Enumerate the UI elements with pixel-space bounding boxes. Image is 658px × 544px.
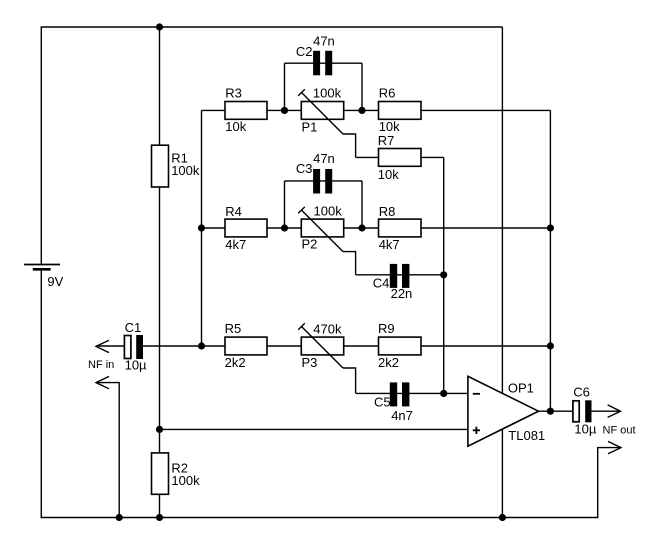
wire row R4 P2 R8 bbox=[202, 227, 551, 229]
svg-text:4k7: 4k7 bbox=[379, 237, 400, 252]
wire C2 right vertical bbox=[361, 63, 363, 110]
svg-text:47n: 47n bbox=[313, 33, 335, 48]
wire C5 row to inverting input bbox=[356, 392, 468, 394]
node op-amp output bbox=[547, 408, 554, 415]
wire left vertical from battery bottom to ground rail bbox=[40, 269, 42, 518]
capacitor C6 electrolytic bbox=[573, 384, 597, 436]
wire NF out ground stub bbox=[598, 448, 619, 518]
node R8 right rail bbox=[547, 224, 554, 231]
svg-text:2k2: 2k2 bbox=[225, 355, 246, 370]
wire right feedback rail bbox=[549, 110, 551, 411]
node C4 R7 bbox=[440, 271, 447, 278]
node C1 bus R5 bbox=[198, 342, 205, 349]
node R4 C3 P2 bbox=[281, 224, 288, 231]
capacitor C4 bbox=[373, 264, 413, 301]
node bus R4 bbox=[198, 224, 205, 231]
node C5 inverting input bbox=[440, 390, 447, 397]
capacitor C1 electrolytic bbox=[124, 320, 147, 372]
wire R7 row bbox=[356, 156, 444, 158]
resistor R6 bbox=[379, 85, 422, 134]
wire bottom ground rail bbox=[41, 517, 599, 519]
svg-text:10k: 10k bbox=[379, 119, 400, 134]
NF in ground arrow bbox=[96, 376, 109, 388]
svg-text:C2: C2 bbox=[296, 44, 313, 59]
svg-text:10k: 10k bbox=[378, 167, 399, 182]
node divider mid bbox=[156, 426, 163, 433]
svg-text:R5: R5 bbox=[225, 321, 242, 336]
svg-text:100k: 100k bbox=[313, 85, 342, 100]
wire P3 wiper jog bbox=[343, 368, 356, 393]
svg-text:R8: R8 bbox=[379, 204, 396, 219]
NF out ground arrow bbox=[608, 441, 621, 453]
wire C3 row bbox=[285, 180, 363, 182]
wire NF in to C1 bbox=[96, 345, 124, 347]
battery 9V bbox=[24, 265, 64, 289]
wire left input bus vertical bbox=[201, 110, 203, 346]
capacitor C5 bbox=[374, 382, 413, 422]
svg-text:C5: C5 bbox=[374, 395, 391, 410]
svg-text:OP1: OP1 bbox=[508, 381, 534, 396]
resistor R5 bbox=[225, 321, 267, 370]
node top rail / R1 bbox=[156, 23, 163, 30]
resistor R8 bbox=[379, 204, 422, 252]
node R9 right rail bbox=[547, 342, 554, 349]
node NF in ground rail bbox=[116, 514, 123, 521]
svg-text:R6: R6 bbox=[379, 85, 396, 100]
svg-text:100k: 100k bbox=[314, 203, 343, 218]
node R3 C2 P1 bbox=[281, 107, 288, 114]
wire C2 left vertical bbox=[284, 63, 286, 110]
wire R7 output vertical bbox=[443, 157, 445, 393]
svg-text:P3: P3 bbox=[302, 355, 318, 370]
svg-text:R4: R4 bbox=[225, 204, 242, 219]
wire non-inverting input from divider bbox=[160, 428, 468, 430]
svg-text:10µ: 10µ bbox=[125, 358, 147, 373]
svg-text:NF in: NF in bbox=[88, 359, 114, 371]
svg-text:10k: 10k bbox=[225, 119, 246, 134]
svg-text:47n: 47n bbox=[313, 151, 335, 166]
node R2 ground rail bbox=[156, 514, 163, 521]
svg-text:C3: C3 bbox=[296, 161, 313, 176]
wire op-amp supply vertical bbox=[501, 27, 503, 518]
svg-text:R7: R7 bbox=[378, 133, 395, 148]
svg-text:P1: P1 bbox=[302, 119, 318, 134]
node op-amp V- ground rail bbox=[499, 514, 506, 521]
wire left vertical from top rail to battery top bbox=[40, 27, 42, 265]
svg-text:C4: C4 bbox=[373, 276, 390, 291]
svg-text:C6: C6 bbox=[573, 384, 590, 399]
wire C6 to NF out bbox=[592, 410, 620, 412]
resistor R4 bbox=[225, 204, 267, 252]
potentiometer P2 bbox=[298, 203, 343, 251]
svg-text:470k: 470k bbox=[313, 321, 342, 336]
potentiometer P1 bbox=[298, 85, 343, 134]
svg-text:R9: R9 bbox=[378, 321, 395, 336]
svg-text:10µ: 10µ bbox=[574, 421, 596, 436]
svg-text:C1: C1 bbox=[125, 320, 142, 335]
NF in signal arrow bbox=[88, 340, 114, 371]
svg-text:4k7: 4k7 bbox=[225, 237, 246, 252]
wire top supply rail bbox=[41, 26, 503, 28]
wire vertical through R1 R2 divider bbox=[159, 27, 161, 518]
resistor R2 bbox=[152, 453, 201, 494]
resistor R3 bbox=[225, 85, 267, 134]
wire row R3 P1 R6 bbox=[202, 109, 551, 111]
op-amp U1 OP1 TL081 bbox=[468, 376, 545, 446]
capacitor C3 bbox=[296, 151, 335, 193]
wire NF in ground stub bbox=[96, 383, 119, 518]
wire C2 top row bbox=[285, 62, 363, 64]
svg-text:4n7: 4n7 bbox=[391, 408, 413, 423]
svg-text:100k: 100k bbox=[171, 473, 200, 488]
svg-text:R3: R3 bbox=[225, 85, 242, 100]
wire op-amp output to C6 bbox=[539, 410, 573, 412]
svg-text:9V: 9V bbox=[47, 274, 63, 289]
wire C3 right vertical bbox=[361, 181, 363, 228]
svg-text:100k: 100k bbox=[171, 163, 200, 178]
wire C4 row bbox=[356, 274, 444, 276]
resistor R9 bbox=[378, 321, 421, 370]
node P2 C3 R8 bbox=[358, 224, 365, 231]
svg-text:NF out: NF out bbox=[603, 424, 636, 436]
wire P1 wiper jog bbox=[343, 134, 356, 157]
capacitor C2 bbox=[296, 33, 335, 75]
potentiometer P3 bbox=[298, 321, 343, 370]
svg-text:TL081: TL081 bbox=[508, 428, 545, 443]
wire row C1 R5 P3 R9 bbox=[143, 345, 550, 347]
svg-text:2k2: 2k2 bbox=[378, 355, 399, 370]
node P1 C2 R6 bbox=[358, 107, 365, 114]
resistor R1 bbox=[152, 145, 200, 187]
svg-text:P2: P2 bbox=[302, 237, 318, 252]
NF out signal arrow bbox=[603, 405, 636, 436]
resistor R7 bbox=[378, 133, 421, 182]
wire C3 left vertical bbox=[284, 181, 286, 228]
svg-text:22n: 22n bbox=[391, 286, 413, 301]
wire P2 wiper jog bbox=[343, 252, 356, 275]
